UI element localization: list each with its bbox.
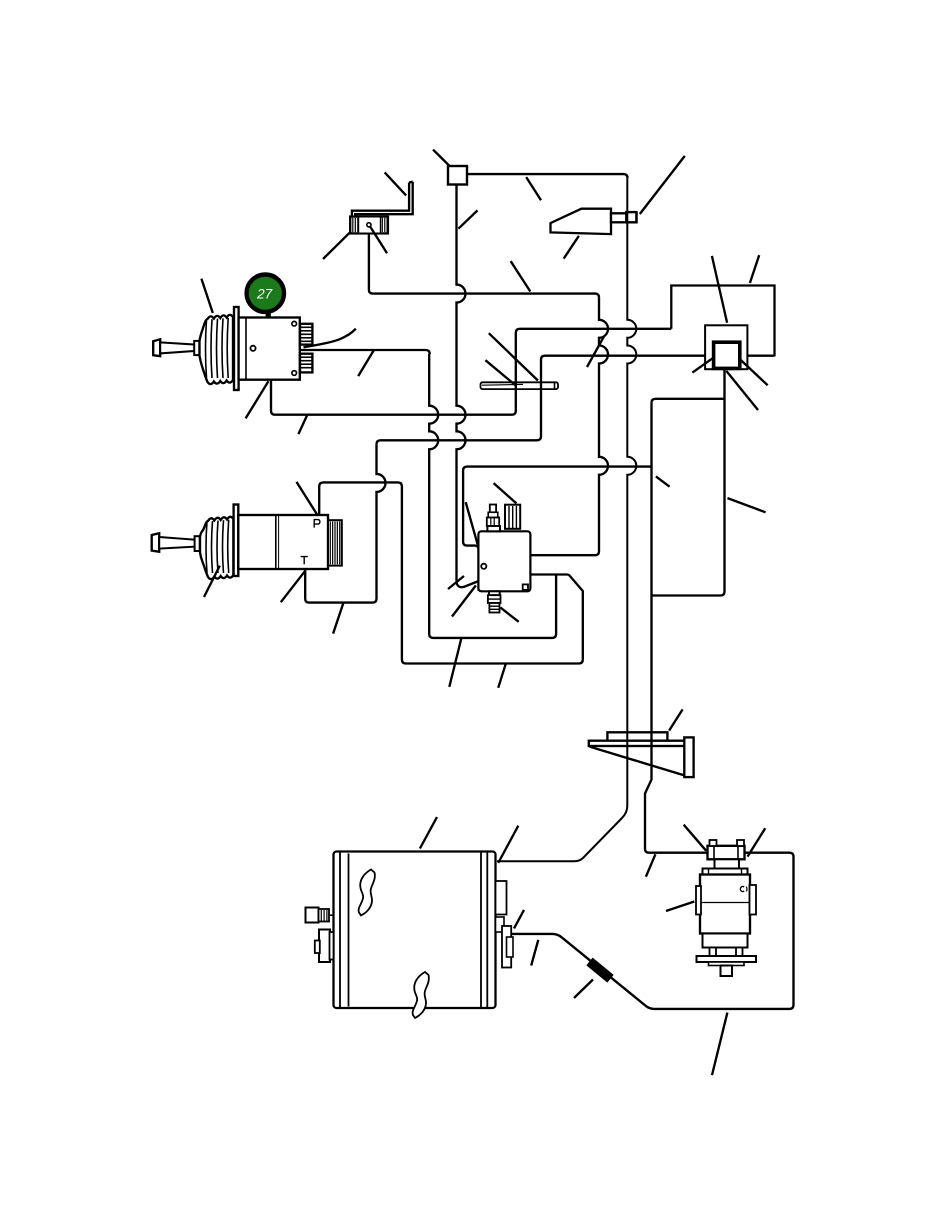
svg-text:27: 27: [256, 287, 273, 302]
